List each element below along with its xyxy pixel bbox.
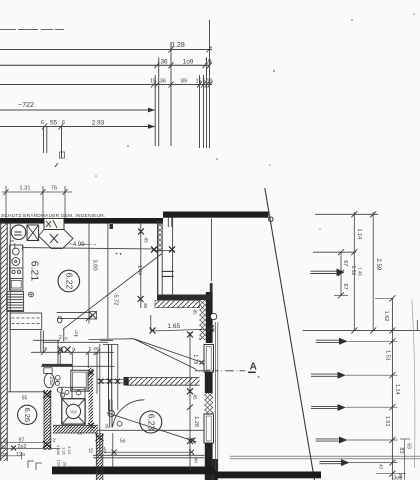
svg-text:120: 120	[57, 460, 62, 467]
svg-text:A: A	[250, 361, 257, 372]
svg-text:1.51: 1.51	[385, 350, 391, 361]
svg-text:o2: o2	[101, 449, 107, 455]
svg-text:36: 36	[160, 58, 168, 65]
svg-text:6.22: 6.22	[65, 273, 75, 290]
svg-text:5o: 5o	[120, 438, 126, 444]
svg-text:1.28: 1.28	[193, 416, 199, 427]
svg-text:15: 15	[196, 78, 202, 84]
svg-text:o5: o5	[105, 423, 110, 429]
svg-text:~722: ~722	[18, 102, 34, 109]
svg-text:~4.99: ~4.99	[69, 242, 85, 248]
svg-text:75: 75	[51, 186, 57, 192]
svg-text:20: 20	[63, 462, 68, 467]
svg-text:43: 43	[378, 464, 383, 470]
svg-text:1.78: 1.78	[192, 354, 198, 364]
svg-text:-85: -85	[192, 308, 197, 315]
svg-text:1.65: 1.65	[167, 323, 180, 330]
svg-text:2o: 2o	[1, 444, 7, 449]
svg-text:1.28: 1.28	[171, 42, 185, 49]
svg-text:2o-: 2o-	[93, 351, 100, 356]
svg-text:35: 35	[142, 303, 148, 309]
svg-text:89: 89	[181, 78, 187, 84]
svg-text:2.59: 2.59	[375, 259, 381, 271]
svg-text:2o: 2o	[52, 438, 57, 443]
svg-text:6.26: 6.26	[23, 407, 32, 422]
svg-text:-3o8: -3o8	[392, 476, 403, 480]
svg-text:-5.72: -5.72	[113, 293, 119, 306]
svg-text:3.00: 3.00	[91, 259, 97, 270]
svg-text:2.185: 2.185	[56, 445, 61, 456]
svg-text:55: 55	[50, 120, 58, 127]
svg-text:o: o	[72, 347, 75, 352]
svg-text:1.62: 1.62	[383, 311, 389, 322]
svg-text:-40: -40	[194, 456, 199, 463]
svg-text:t2: t2	[89, 449, 93, 455]
svg-text:19: 19	[207, 78, 213, 84]
svg-text:2.93: 2.93	[92, 120, 105, 127]
svg-text:1.14: 1.14	[394, 384, 400, 395]
svg-text:1.51: 1.51	[384, 416, 390, 427]
svg-text:1.20: 1.20	[62, 447, 67, 456]
svg-text:1o: 1o	[77, 430, 83, 435]
svg-text:1.44: 1.44	[136, 265, 142, 275]
svg-text:5.24: 5.24	[67, 446, 72, 455]
svg-text:67: 67	[342, 260, 348, 266]
svg-text:15: 15	[150, 78, 156, 84]
svg-text:1Q2: 1Q2	[70, 410, 77, 414]
svg-text:1o9: 1o9	[183, 58, 194, 65]
svg-text:6.21: 6.21	[29, 261, 41, 282]
svg-text:7: 7	[88, 346, 91, 352]
svg-text:83: 83	[398, 447, 404, 453]
svg-text:97: 97	[19, 438, 25, 444]
svg-text:-85: -85	[193, 393, 198, 400]
svg-text:1.14: 1.14	[356, 228, 362, 239]
svg-text:5: 5	[203, 78, 206, 84]
svg-text:1.46: 1.46	[357, 267, 362, 276]
svg-text:6: 6	[41, 120, 44, 126]
svg-text:1.51: 1.51	[350, 266, 356, 276]
svg-text:6: 6	[62, 120, 65, 126]
svg-text:-5: -5	[43, 346, 48, 352]
svg-text:31: 31	[3, 438, 9, 443]
svg-text:55: 55	[22, 396, 28, 402]
svg-text:2o2: 2o2	[48, 376, 54, 385]
svg-text:12o: 12o	[16, 452, 25, 458]
svg-text:67: 67	[342, 284, 348, 290]
svg-text:-85: -85	[143, 236, 148, 243]
svg-text:19: 19	[204, 58, 212, 65]
svg-text:36: 36	[160, 78, 166, 84]
svg-text:78: 78	[2, 452, 8, 457]
svg-text:63: 63	[405, 443, 411, 449]
svg-text:1.31: 1.31	[19, 186, 30, 192]
svg-text:2o2: 2o2	[18, 444, 27, 450]
